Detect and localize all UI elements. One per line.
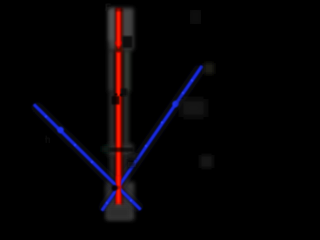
waist nibble right xyxy=(120,94,123,97)
red faint joint in gap 1 xyxy=(117,51,120,54)
gray artifact band: vertex/bottom section xyxy=(106,182,134,220)
faint ghost marks right of red line xyxy=(127,153,137,159)
svg-text:h: h xyxy=(45,135,51,146)
red line over crossing xyxy=(116,176,121,205)
ghost smudge below red end xyxy=(107,206,131,219)
gray artifact band: mid right ridge xyxy=(123,92,129,145)
red line segment 2 xyxy=(116,52,121,205)
faint ghost mark 2 right of red line xyxy=(128,162,136,167)
blue arrowhead blob on line B xyxy=(172,101,178,107)
waist nibble left xyxy=(115,93,118,96)
gray artifact band: mid left ridge xyxy=(110,92,115,145)
ghost glyph right of arrow tip 1 xyxy=(123,36,133,48)
gray artifact band: pinch3 section xyxy=(108,144,133,156)
faint smudge far right xyxy=(200,155,213,168)
ghost smudge near right line tip xyxy=(204,63,214,74)
dark blob at vertex xyxy=(112,185,118,191)
artifact glow around blue line B xyxy=(102,66,202,211)
red line segment 1 with arrow tip xyxy=(115,8,122,50)
svg-text:F: F xyxy=(105,3,111,14)
red fringe (dark red halo along whole line) xyxy=(115,8,123,206)
blue line B: upper-right to lower-left xyxy=(102,66,202,211)
gray artifact band: upper-mid left ridge xyxy=(109,50,115,92)
greenish smudge left of band 3 xyxy=(102,146,110,152)
bright beads on line A xyxy=(45,115,132,201)
band bright left column xyxy=(109,9,116,41)
red line segment 1 core xyxy=(117,9,120,46)
gray artifact band: top section xyxy=(109,8,134,50)
ghost blob 2b over line left xyxy=(112,96,120,105)
dark dimming at red top xyxy=(116,7,123,12)
ghost blob 2a right of line xyxy=(121,89,127,97)
red core over crossing xyxy=(117,176,120,205)
bright beads on line B xyxy=(106,79,193,204)
ghost label block near right arrowhead xyxy=(181,99,206,117)
blue arrowhead blob on line A xyxy=(57,127,63,133)
gray stub below red end xyxy=(116,205,122,212)
gray artifact band: lower-mid left ridge xyxy=(110,156,115,182)
gray artifact band: upper-mid right ridge xyxy=(124,50,131,92)
faint smudge top-right corner xyxy=(190,10,201,24)
red line segment 2 core xyxy=(117,53,120,204)
artifact glow around blue line A xyxy=(34,105,141,210)
ghost dark band 3 crossing line xyxy=(107,148,133,153)
blue line A: upper-left to lower-right xyxy=(34,105,141,210)
gray artifact band: lower-mid right ridge xyxy=(123,156,128,182)
dim spot at exact crossing xyxy=(116,186,120,190)
